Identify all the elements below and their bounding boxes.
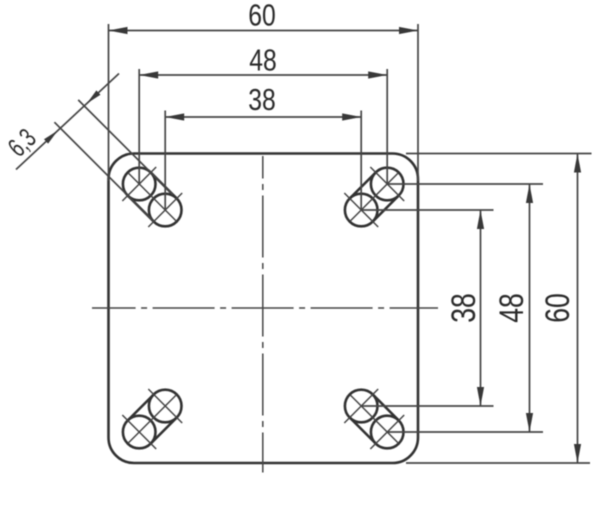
vertical centerline (262, 156, 264, 473)
plate outline (109, 154, 419, 464)
dimension 48 horizontal (139, 43, 387, 79)
dimension 6,3 slot width (2, 74, 119, 170)
extension line 38 bottom-right slot (361, 405, 493, 407)
dimension 38 vertical (445, 210, 484, 406)
extension line 48 top-right slot (387, 183, 543, 185)
svg-text:48: 48 (493, 293, 531, 323)
dimension 38 horizontal (165, 82, 361, 121)
extension line left plate edge up (108, 24, 110, 181)
extension line top plate edge right (406, 153, 592, 155)
slot hole bottom-right (344, 389, 404, 449)
slot hole top-left (122, 167, 182, 227)
extension line 48 left (138, 69, 140, 184)
svg-text:48: 48 (249, 43, 277, 78)
slot hole top-right (344, 167, 404, 227)
horizontal centerline (92, 307, 438, 309)
extension line 48 right (386, 69, 388, 184)
extension line right plate edge up (417, 24, 419, 181)
svg-text:60: 60 (539, 293, 577, 323)
extension line 38 top-right slot (361, 209, 493, 211)
extension line 48 bottom-right slot (387, 431, 543, 433)
slot hole bottom-left (122, 389, 182, 449)
extension line slot edge lower-left (for 6,3) (54, 122, 153, 221)
extension line 38 left (164, 111, 166, 211)
extension line bottom plate edge right (406, 462, 590, 464)
svg-text:60: 60 (248, 0, 276, 33)
svg-text:38: 38 (445, 293, 483, 323)
dimension 60 horizontal (109, 0, 419, 34)
extension line slot edge upper-right (for 6,3) (78, 100, 173, 195)
dimension 48 vertical (493, 184, 533, 432)
svg-text:38: 38 (248, 82, 276, 117)
extension line 38 right (360, 111, 362, 211)
dimension 60 vertical (539, 154, 581, 464)
